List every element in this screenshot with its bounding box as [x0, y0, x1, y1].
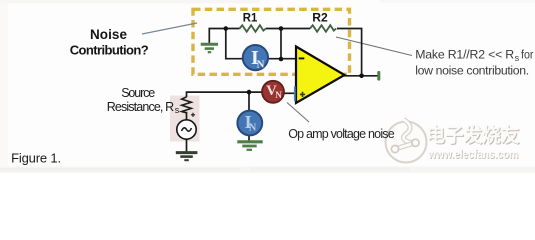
svg-text:s: s [515, 53, 520, 63]
svg-text:low noise contribution.: low noise contribution. [415, 64, 529, 78]
svg-text:Make R1//R2 << R: Make R1//R2 << R [415, 48, 514, 62]
svg-text:for: for [521, 48, 534, 62]
svg-text:N: N [249, 123, 257, 134]
svg-text:Resistance, R: Resistance, R [107, 100, 175, 114]
svg-text:s: s [175, 105, 180, 115]
svg-text:电子发烧友: 电子发烧友 [426, 124, 519, 147]
svg-text:Source: Source [121, 86, 155, 100]
svg-text:Figure 1.: Figure 1. [11, 150, 61, 165]
svg-text:Contribution?: Contribution? [70, 42, 149, 57]
svg-text:Op amp voltage noise: Op amp voltage noise [288, 127, 395, 141]
svg-text:Noise: Noise [90, 27, 127, 42]
svg-text:www.elecfans.com: www.elecfans.com [427, 149, 518, 161]
svg-text:N: N [257, 59, 265, 71]
svg-text:R1: R1 [243, 12, 258, 24]
svg-text:N: N [275, 90, 282, 100]
svg-text:R2: R2 [312, 12, 328, 24]
